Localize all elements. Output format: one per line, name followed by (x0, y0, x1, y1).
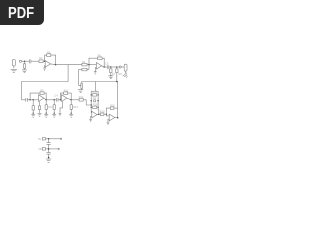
resistor R7 (node F to ground) (110, 67, 112, 76)
svg-text:VB: VB (38, 147, 42, 151)
potentiometer VR1 (79, 70, 83, 90)
node O (rail 2 junction) (48, 148, 50, 150)
wire (U4 out) (71, 99, 79, 101)
op-amp U2 (96, 63, 104, 70)
ground (under R11) (44, 114, 48, 117)
ground (under J2, slanted) (123, 73, 129, 79)
resistor R5 (summing bottom) (79, 65, 97, 71)
node IN terminal circle (19, 60, 21, 62)
node dot (R13 bottom) (71, 113, 72, 114)
resistor R19 (feedback U6) (110, 107, 114, 109)
node (rail 2 end) (58, 148, 59, 149)
capacitor C2 (row2 series in) (22, 98, 39, 102)
op-amp U6 (106, 114, 117, 121)
ground (U2 +) (94, 72, 97, 74)
resistor R9 (feedback U3) (40, 92, 44, 95)
node E (U2 out) (103, 66, 105, 68)
wire (feedback loop U4) (60, 93, 71, 100)
node dot (C3 bottom) (33, 113, 34, 114)
node dots (ladder row2) (91, 100, 99, 101)
wire (U4 + bias to ground) (60, 101, 63, 113)
wire (U2 + input bias) (95, 68, 96, 72)
input jack J1 (12, 60, 15, 69)
ground (U1 +) (43, 68, 46, 70)
node (wet bus taps) (116, 81, 118, 83)
wire (U1 + input bias) (44, 66, 47, 68)
ground (under R10) (38, 113, 42, 116)
capacitor C3 (to ground) (32, 100, 34, 113)
wire (OUT to jack) (121, 66, 124, 68)
node (C8 tap) (53, 99, 55, 101)
svg-text:R8: R8 (119, 73, 123, 76)
ground (under J1) (11, 69, 17, 72)
wire (feedback loop U1) (45, 55, 56, 65)
node F (output junction) (110, 66, 112, 68)
op-amp U5 (91, 111, 99, 118)
node (R8 tap) (116, 66, 118, 68)
resistor R10 (U3 + to ground) (38, 101, 40, 113)
svg-text:R11: R11 (48, 106, 53, 109)
capacitor C1 (series input) (29, 59, 39, 63)
node K (U5 out) (98, 113, 100, 115)
output jack J2 (124, 64, 127, 73)
svg-text:R16: R16 (93, 104, 98, 107)
node dot (ladder feed) (91, 104, 92, 105)
node L (U6 inverting) (106, 113, 108, 115)
wire (feedback loop U2) (89, 58, 104, 67)
node dot (C8 bottom) (54, 113, 55, 114)
svg-text:C6: C6 (93, 97, 97, 100)
svg-text:C4: C4 (54, 95, 58, 98)
diode D1 (rail 1 series) (42, 138, 60, 140)
op-amp U1 (45, 61, 55, 68)
node N (rail 1 junction) (48, 138, 50, 140)
wire (right rail to U5 out) (97, 110, 100, 114)
wire (U3 out) (46, 99, 56, 101)
wire (to OUT circle) (117, 66, 119, 68)
capacitor C7 (rail 1 filter) (47, 139, 51, 153)
resistor R13 (U4 out to ground) (70, 100, 72, 113)
ground (under C3) (31, 114, 35, 117)
node OUT terminal circle (119, 66, 121, 68)
svg-text:R13: R13 (73, 106, 78, 109)
ground (under VR1) (78, 90, 83, 93)
node J (U4 out) (70, 99, 72, 101)
node dots (ladder row3) (91, 107, 99, 108)
ground (under C8) (52, 114, 56, 117)
ground (U6 +) (107, 122, 110, 124)
resistor R6 (feedback U2) (98, 57, 103, 60)
node (C3 tap) (32, 99, 34, 101)
wire (pot-top bus, wet line) (82, 82, 118, 118)
node dot (supply gnd) (48, 157, 50, 159)
capacitor C4 (row2 series mid) (57, 98, 62, 102)
svg-text:9V: 9V (38, 137, 41, 141)
PDF badge (0, 0, 44, 25)
node H (U3 out) (45, 99, 47, 101)
ground (supply) (46, 159, 51, 162)
resistor R15 (ladder row1) (93, 94, 97, 96)
svg-text:R18: R18 (100, 110, 105, 113)
svg-text:R12: R12 (64, 89, 69, 92)
capacitor C8 (to ground) (53, 100, 55, 113)
resistor R14 (U4 out series) (79, 99, 91, 106)
ground (under R7) (108, 76, 113, 79)
ground (U4 +) (59, 113, 62, 115)
node dot (R7 bottom) (110, 75, 111, 76)
node dots (ladder row1) (91, 94, 99, 95)
ground (under R2) (22, 70, 27, 73)
ground (U5 +) (89, 119, 92, 121)
resistor R12 (feedback U4) (64, 92, 68, 95)
ground (under R13) (69, 114, 73, 117)
wire (ladder right rail) (97, 91, 99, 110)
resistor R4 (summing top) (82, 63, 87, 66)
capacitor C6 (ladder row2) (93, 100, 95, 102)
op-amp U4 (62, 95, 72, 102)
resistor R1 (series) (39, 60, 45, 63)
svg-text:R19: R19 (110, 104, 115, 107)
resistor R8 (wet feed, vertical) (116, 67, 118, 82)
wire (down and left to row 2) (22, 65, 69, 100)
node D (U2 inverting) (88, 64, 90, 66)
node A junction (24, 60, 26, 62)
wire (U1 out to summing resistors) (56, 64, 82, 66)
node G (U3 inverting) (29, 99, 31, 101)
wire (feedback loop U3) (30, 93, 46, 100)
node I (U4 inverting) (60, 99, 62, 101)
node dot (R11 bottom) (46, 113, 47, 114)
node M (U6 out) (117, 117, 119, 119)
svg-text:C5: C5 (105, 62, 109, 65)
wire (ladder top stub) (91, 82, 98, 92)
resistor R20 (rail 2 series) (42, 148, 58, 150)
capacitor C9 (rail 2 filter) (47, 153, 51, 159)
node B (U1 inverting) (44, 60, 46, 62)
resistor R16 (ladder row3) (93, 106, 97, 108)
wire (ladder left rail) (90, 91, 92, 113)
resistor R18 (U5 out series) (99, 113, 107, 116)
wire (U5 + bias) (91, 116, 92, 119)
resistor R2 (node A to ground) (23, 61, 25, 70)
svg-text:R15: R15 (92, 91, 97, 94)
op-amp U3 (39, 95, 47, 102)
svg-text:R14: R14 (79, 96, 84, 99)
node (rail 1 end) (60, 138, 61, 139)
wire (input line) (22, 60, 30, 62)
capacitor C5 (series out) (104, 65, 117, 69)
node C (U1 out) (55, 64, 57, 66)
resistor R11 (U3 out to ground) (45, 100, 47, 113)
resistor R3 (feedback U1) (47, 54, 51, 57)
wire (feedback loop U6) (106, 108, 117, 114)
wire (U6 + bias) (108, 119, 109, 122)
